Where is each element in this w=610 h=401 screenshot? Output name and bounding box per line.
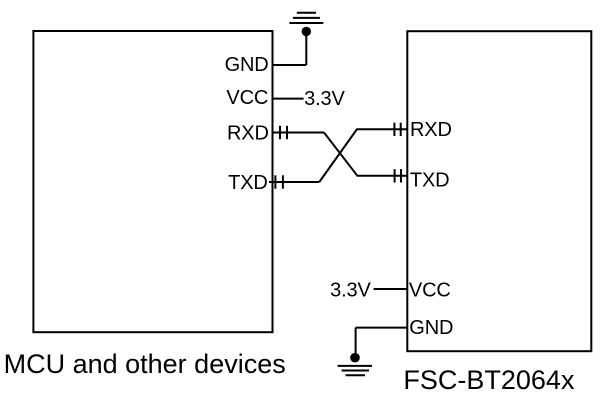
svg-text:RXD: RXD xyxy=(410,119,452,141)
wire crossover RXD-L to TXD-R xyxy=(324,133,407,176)
svg-text:3.3V: 3.3V xyxy=(330,280,371,302)
svg-text:VCC: VCC xyxy=(409,280,451,302)
svg-text:MCU and other devices: MCU and other devices xyxy=(4,349,286,379)
wire GND-R vertical to ground xyxy=(355,328,357,358)
tick TXD-R 1 xyxy=(394,169,396,182)
FSC-BT2064x box xyxy=(407,31,591,351)
wire GND-L vertical to ground xyxy=(305,32,307,66)
tick TXD-L 1 xyxy=(274,175,276,188)
tick RXD-L 1 xyxy=(279,126,281,139)
tick RXD-R 2 xyxy=(400,123,402,136)
svg-text:TXD: TXD xyxy=(228,172,268,194)
wire crossover TXD-L to RXD-R xyxy=(319,129,407,182)
junction dot GND-L xyxy=(302,27,311,36)
wire RXD-L horizontal xyxy=(273,132,325,134)
svg-text:VCC: VCC xyxy=(226,87,268,109)
wire GND-R horizontal xyxy=(356,327,408,329)
svg-text:GND: GND xyxy=(409,317,453,339)
svg-text:FSC-BT2064x: FSC-BT2064x xyxy=(403,365,575,395)
ground GND1 (top, inverted) xyxy=(289,13,323,23)
ground GND2 (bottom) xyxy=(338,366,372,375)
wire VCC-R from 3.3V xyxy=(374,288,408,290)
wire TXD-L horizontal xyxy=(269,181,319,183)
junction dot GND-R xyxy=(350,353,360,363)
tick RXD-R 1 xyxy=(393,123,395,136)
wire GND-L horizontal xyxy=(273,64,307,66)
tick RXD-L 2 xyxy=(286,126,288,139)
svg-text:TXD: TXD xyxy=(410,170,450,192)
tick TXD-L 2 xyxy=(282,175,284,188)
wire VCC-L to 3.3V xyxy=(273,98,304,100)
MCU box xyxy=(33,31,272,332)
svg-text:RXD: RXD xyxy=(227,122,269,144)
svg-text:3.3V: 3.3V xyxy=(304,88,345,110)
svg-text:GND: GND xyxy=(225,54,269,76)
tick TXD-R 2 xyxy=(400,169,402,182)
